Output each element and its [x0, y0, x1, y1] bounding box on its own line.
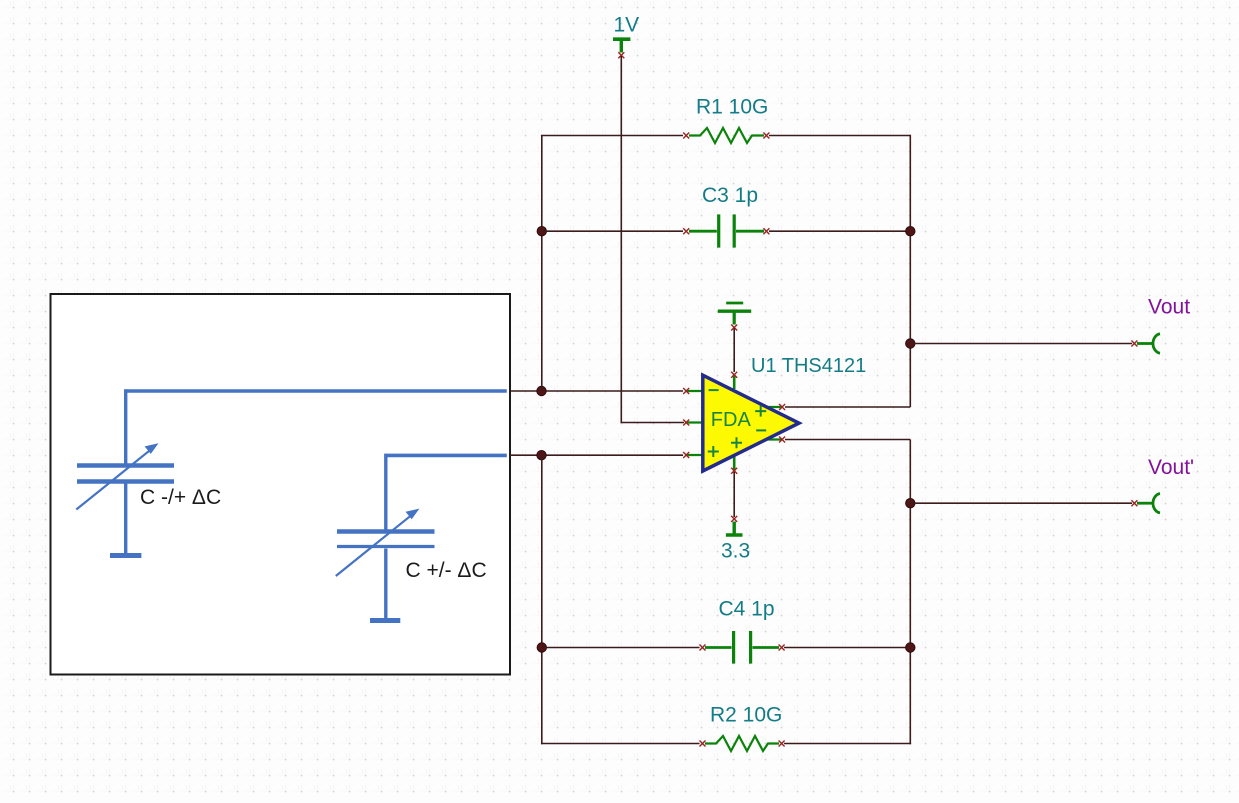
- junction: [906, 227, 915, 236]
- svg-text:FDA: FDA: [711, 409, 752, 431]
- resistor R1: [683, 128, 769, 143]
- pin of 3.3 supply: [731, 516, 737, 522]
- wire ground to U1 top pin: [733, 329, 735, 373]
- op-amp U1 FDA: [686, 374, 799, 471]
- svg-text:C +/- ΔC: C +/- ΔC: [406, 559, 487, 582]
- voltage source 1V symbol: [613, 39, 630, 52]
- wire Vout': [910, 502, 1132, 504]
- wire (blue, box upper output): [126, 389, 507, 393]
- svg-text:1V: 1V: [614, 13, 640, 36]
- junction: [537, 451, 546, 460]
- ground: [718, 303, 751, 325]
- wire C3 rail right: [769, 230, 910, 232]
- wire left rail upper: [541, 136, 543, 392]
- svg-text:R1 10G: R1 10G: [696, 96, 768, 119]
- svg-text:U1 THS4121: U1 THS4121: [751, 355, 866, 377]
- svg-text:Vout: Vout: [1148, 295, 1190, 318]
- port Vout: [1131, 334, 1160, 353]
- wire C3 rail left: [542, 230, 683, 232]
- capacitor C4: [700, 631, 785, 664]
- wire R1 rail right: [769, 135, 910, 137]
- wire (blue, box lower output): [386, 454, 507, 458]
- wire output plus: [785, 406, 910, 408]
- svg-text:C3 1p: C3 1p: [702, 184, 758, 207]
- subcircuit box: [51, 294, 511, 675]
- wire R2 rail right: [784, 743, 911, 745]
- pin of 1V source: [618, 52, 624, 58]
- svg-text:Vout': Vout': [1148, 456, 1194, 479]
- capacitor C3: [683, 214, 769, 247]
- svg-text:C4 1p: C4 1p: [719, 598, 775, 621]
- variable capacitor C +/- dC: [336, 454, 435, 621]
- variable capacitor C -/+ dC: [76, 389, 174, 555]
- junction: [537, 227, 546, 236]
- wire Vout: [910, 343, 1132, 345]
- wire left rail lower: [541, 455, 543, 744]
- junction: [537, 643, 546, 652]
- port Vout': [1131, 494, 1160, 513]
- voltage source 3.3 symbol: [726, 522, 743, 536]
- wire output minus: [785, 439, 910, 441]
- svg-text:R2 10G: R2 10G: [710, 703, 782, 726]
- svg-text:C -/+ ΔC: C -/+ ΔC: [140, 486, 221, 509]
- pin of ground: [731, 325, 737, 331]
- wire inverting input: [510, 390, 683, 392]
- wire C4 rail right: [784, 647, 910, 649]
- junction: [906, 499, 915, 508]
- resistor R2: [700, 736, 785, 751]
- svg-text:3.3: 3.3: [721, 540, 750, 563]
- junction: [537, 386, 546, 395]
- wire U1 bottom pin to 3.3 supply: [733, 472, 735, 517]
- wire 1V to Vocm pin: [621, 56, 684, 423]
- wire right rail lower: [909, 440, 911, 745]
- wire C4 rail left: [542, 647, 700, 649]
- pins of U1: [683, 372, 785, 474]
- wire R1 rail left: [541, 135, 683, 137]
- wire R2 rail left: [541, 743, 700, 745]
- junction: [906, 643, 915, 652]
- wire right rail upper: [909, 135, 911, 407]
- wire non-inverting input: [510, 454, 683, 456]
- junction: [906, 339, 915, 348]
